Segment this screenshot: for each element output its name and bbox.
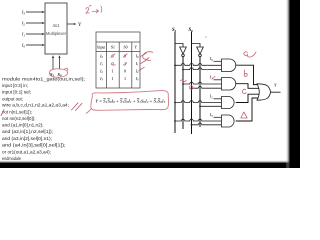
- table col S0 column: [124, 54, 126, 82]
- svg-text:4x1: 4x1: [52, 23, 60, 28]
- wire G4 bottom input from S0 rail: [192, 123, 222, 125]
- svg-text:Y: Y: [134, 45, 137, 49]
- wire S1 rail: [174, 32, 176, 134]
- red wire label a: [244, 52, 256, 57]
- black bar right: [286, 0, 291, 168]
- svg-text:1: 1: [124, 76, 126, 81]
- OR gate: [257, 84, 271, 100]
- red tick near G2 label: [212, 76, 215, 79]
- overbars on formula: [103, 97, 160, 99]
- wire G2 top input: [214, 79, 222, 81]
- wire G3 mid input from S1 rail: [175, 101, 222, 103]
- wire G3 top input: [214, 98, 222, 100]
- input I0: [26, 44, 43, 46]
- wire G4 mid input from S1 rail: [175, 119, 222, 121]
- red squiggle between rails: [181, 80, 187, 82]
- wire G1 bottom input from S1' rail: [183, 68, 222, 70]
- red dot on G1 bottom input: [207, 69, 208, 70]
- svg-text:S1: S1: [111, 45, 115, 49]
- svg-text:S1: S1: [172, 28, 177, 33]
- red wire label d (delta): [241, 112, 247, 118]
- speck dot: [205, 36, 206, 37]
- svg-text:and (a4,in[3],sel[0],sel[1]);: and (a4,in[3],sel[0],sel[1]);: [2, 143, 66, 149]
- svg-text:Y = S1S0I0 + S1S0I1 + S1S0I2 +: Y = S1S0I0 + S1S0I1 + S1S0I2 + S1S0I3: [95, 98, 166, 104]
- wire G2 output to OR: [236, 84, 263, 89]
- table col S1 column: [111, 54, 113, 82]
- svg-text:wire a,b,c,d,n1,n2,a1,a2,a3,a4: wire a,b,c,d,n1,n2,a1,a2,a3,a4;: [2, 103, 69, 109]
- verilog code block: [2, 76, 85, 162]
- svg-text:or or1(out,a1,a2,a3,a4);: or or1(out,a1,a2,a3,a4);: [2, 149, 51, 155]
- input I1: [26, 33, 43, 35]
- wire G3 output to OR: [236, 94, 263, 102]
- svg-text:I0: I0: [209, 56, 213, 62]
- svg-text:I0: I0: [21, 43, 26, 49]
- wire S0 rail: [191, 32, 193, 135]
- AND gate G1: [222, 59, 236, 72]
- AND gate G4: [222, 115, 235, 127]
- red circle on G2 bottom input hump: [190, 86, 193, 89]
- red annotation 2^2 -> ): [86, 5, 102, 13]
- svg-text:I2: I2: [21, 21, 26, 27]
- svg-text:0: 0: [124, 69, 126, 74]
- select wire S1: [52, 58, 54, 69]
- select wire S0: [59, 58, 61, 69]
- wire G1 top input: [214, 60, 222, 62]
- red dot on G1 mid input: [207, 65, 208, 66]
- svg-text:not n(n1,sel[1]);: not n(n1,sel[1]);: [2, 109, 32, 115]
- svg-text:I1: I1: [21, 32, 26, 38]
- svg-text:Input: Input: [97, 45, 106, 49]
- AND gate G2: [222, 78, 236, 91]
- red wire label b: [244, 70, 247, 77]
- svg-text:and (a2,in[1],n2,sel[1]);: and (a2,in[1],n2,sel[1]);: [2, 129, 53, 135]
- red slashes after wire line: [1, 103, 82, 116]
- table header: [97, 45, 137, 49]
- wire S1' rail: [182, 57, 184, 129]
- wire G4 output to OR: [236, 98, 259, 121]
- svg-text:and (a3,in[2],sel[0],n1);: and (a3,in[2],sel[0],n1);: [2, 136, 52, 142]
- red box around formula: [86, 91, 169, 114]
- svg-text:input [0:1] sel;: input [0:1] sel;: [2, 90, 31, 96]
- boolean formula: [95, 98, 166, 104]
- svg-text:I3: I3: [209, 112, 213, 118]
- wire G3 bottom input from S0' rail: [200, 105, 222, 107]
- inverter NOT1: [175, 44, 186, 57]
- output Y wire: [67, 23, 74, 25]
- wire G4 top input: [214, 116, 222, 118]
- svg-text:and (a1,in[0],n1,n2);: and (a1,in[0],n1,n2);: [2, 123, 44, 129]
- input I3: [26, 11, 43, 13]
- red ellipse around select labels: [50, 68, 68, 77]
- truth table: [96, 32, 140, 88]
- svg-text:not nn(n2,sel[0]);: not nn(n2,sel[0]);: [2, 116, 36, 122]
- table col Y column: [135, 54, 139, 82]
- black bar bottom: [0, 160, 300, 163]
- svg-text:I2: I2: [209, 94, 213, 100]
- wire G2 mid input from S1' rail: [183, 82, 222, 84]
- svg-text:S0: S0: [189, 28, 194, 33]
- svg-text:Y: Y: [78, 23, 82, 28]
- input I2: [26, 22, 43, 24]
- svg-text:S0: S0: [123, 45, 127, 49]
- AND gate G3: [222, 97, 235, 109]
- svg-text:output out;: output out;: [2, 96, 23, 102]
- svg-text:1: 1: [111, 76, 113, 81]
- inverter NOT2: [192, 44, 204, 57]
- svg-text:module mux4to1_gate(out,in,sel: module mux4to1_gate(out,in,sel);: [2, 76, 85, 82]
- svg-text:I1: I1: [209, 75, 213, 81]
- wire G1 mid input from S1 rail: [175, 63, 222, 65]
- wire S0' rail: [199, 57, 201, 127]
- red wire label c: [242, 89, 246, 93]
- svg-text:1: 1: [111, 69, 113, 74]
- wire G2 bottom input from S0 rail: [192, 86, 222, 88]
- svg-text:Multiplexer: Multiplexer: [46, 31, 67, 36]
- red check marks in table: [111, 52, 153, 71]
- svg-text:input [0:3] in;: input [0:3] in;: [2, 83, 28, 89]
- svg-text:I3: I3: [21, 10, 26, 16]
- wire OR output Y: [271, 91, 281, 93]
- table col Input column: [99, 54, 103, 82]
- wire G1 output to OR: [236, 65, 259, 84]
- multiplexer block U1: [45, 3, 67, 54]
